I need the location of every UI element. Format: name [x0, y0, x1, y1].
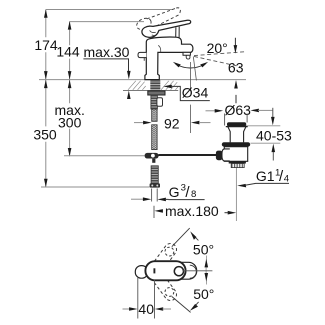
drain outlet collar — [229, 161, 246, 163]
drain outlet thread G1 1/4 — [231, 164, 244, 168]
svg-text:50°: 50° — [193, 286, 214, 302]
top view spout tip — [135, 266, 148, 279]
lever raised dashed — [135, 8, 181, 32]
rod knob — [216, 151, 223, 161]
pop-up drain stopper — [227, 122, 246, 126]
dim 92 left arrow — [134, 122, 144, 124]
label G3/8 underline leader — [165, 198, 205, 200]
lower 50 leader — [172, 297, 191, 313]
svg-text:20°: 20° — [207, 40, 228, 56]
pop-up knob on body — [138, 52, 146, 57]
lever handle solid — [142, 20, 191, 37]
dimension line 174/350 vertical — [45, 10, 47, 188]
G3/8 extension lines — [152, 189, 158, 202]
tick line max300 bottom — [64, 155, 145, 157]
threaded shank below nut — [151, 95, 158, 109]
dim O63 arrows — [206, 110, 216, 112]
lever pivot dash — [153, 268, 155, 273]
tick line top 174 — [46, 9, 173, 11]
drain centerline — [235, 168, 237, 221]
mounting nut under deck — [148, 91, 165, 95]
arrowheads 174/350 — [44, 9, 48, 187]
svg-text:40: 40 — [138, 301, 154, 317]
svg-text:40-53: 40-53 — [256, 127, 292, 143]
svg-text:/: / — [185, 184, 190, 201]
deck top line — [39, 79, 246, 81]
dashed lever rotated up 50deg — [151, 241, 179, 273]
horizontal pull rod — [159, 154, 217, 156]
spout aerator — [183, 52, 190, 55]
G1 1/4 leader — [237, 184, 246, 188]
G3/8 dimension arrows — [131, 198, 144, 200]
top view lever — [145, 261, 185, 280]
svg-text:300: 300 — [58, 114, 82, 130]
svg-text:G1: G1 — [256, 168, 275, 184]
O63 extension lines — [225, 114, 248, 126]
deck bottom line — [123, 89, 178, 91]
dim 63 vertical with arrows — [234, 38, 237, 104]
rear body inner arc — [190, 265, 196, 278]
svg-text:8: 8 — [191, 189, 196, 200]
svg-text:Ø34: Ø34 — [182, 85, 209, 101]
spout root inner curve — [158, 45, 161, 52]
drain neck — [228, 127, 246, 143]
dashed ring lower — [165, 288, 174, 297]
cartridge circle — [174, 267, 183, 276]
faucet body side view — [145, 37, 193, 80]
20-degree swing arc with arrows — [176, 64, 206, 68]
G3/8 threaded fitting — [151, 166, 158, 184]
drain flange top — [226, 126, 248, 128]
rod clevis on drain — [222, 149, 230, 161]
arrowheads 144/max300 — [68, 21, 72, 156]
svg-text:50°: 50° — [193, 242, 214, 258]
label G3/8 — [169, 183, 197, 201]
flexible hose braid upper — [152, 109, 157, 121]
dashed lever rotated down 50deg — [151, 271, 179, 303]
centerline right — [183, 270, 212, 272]
dim 40 extension lines — [138, 278, 155, 319]
label G1 1/4 — [256, 167, 290, 185]
fitting hex nut — [150, 183, 160, 187]
max.180 arrows — [154, 209, 236, 214]
upper 50 leader — [172, 228, 190, 247]
label O34 with bracket leader — [163, 85, 172, 89]
drain valve body — [224, 147, 247, 162]
dashed ring upper — [165, 247, 174, 256]
tick line 350 bottom — [41, 186, 150, 188]
40-53 reference lines — [246, 125, 280, 127]
dim 40-53 vertical — [272, 108, 274, 118]
swing double arrow — [205, 256, 208, 285]
dim 40 arrows — [123, 308, 131, 310]
threaded shank through deck — [150, 80, 160, 91]
spout tip extension line — [189, 62, 191, 133]
flexible hose braid lower — [152, 125, 157, 150]
svg-text:63: 63 — [228, 60, 244, 76]
max.180 extension tick — [153, 206, 155, 218]
svg-text:G: G — [169, 184, 180, 200]
lever neck — [176, 27, 180, 38]
tick line top 144 — [70, 21, 144, 23]
svg-text:max.180: max.180 — [165, 203, 219, 219]
water drop at spout — [186, 56, 190, 60]
20-degree dashed reference lines — [194, 52, 247, 67]
stream reference line — [193, 57, 196, 81]
drain locking ring — [222, 142, 250, 147]
svg-text:174: 174 — [34, 37, 58, 53]
top view rear body — [168, 262, 197, 279]
hose guide clip — [157, 98, 163, 107]
dimension line 144/max300 vertical — [69, 21, 71, 156]
svg-text:350: 350 — [33, 127, 57, 143]
svg-text:144: 144 — [56, 44, 80, 60]
svg-text:92: 92 — [164, 115, 180, 131]
stub below ball — [152, 159, 155, 163]
lever grip detail — [150, 30, 156, 35]
deck hatching — [128, 81, 178, 90]
svg-text:max.30: max.30 — [84, 44, 130, 60]
rod coupling ball — [145, 153, 159, 159]
svg-text:4: 4 — [284, 174, 290, 185]
